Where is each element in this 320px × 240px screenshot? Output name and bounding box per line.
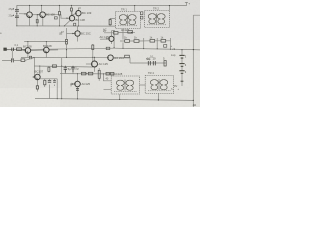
wire x34 drop [33,58,35,78]
wire y41 link [24,41,66,43]
transistor A prime [25,48,31,54]
wire T9 collector [39,73,41,75]
resistor hang x49 on y66 [48,66,50,72]
wire second input [2,58,34,61]
capacitor pair y63 a [148,61,150,65]
transistor T4 [69,16,74,21]
transistor T9 [35,74,41,80]
wire A prime emitter [27,53,29,57]
emitter resistor T9 [36,86,38,89]
resistor R x59 [58,12,60,16]
resistor on x66 bus [66,39,68,44]
transistor T10 [108,55,114,61]
wire box1b-box2b link [140,84,146,86]
wire vertical x123 [122,29,124,49]
capacitor x65 electrolytic [64,68,67,73]
resistor x165 vertical [164,61,166,67]
wire T2 emitter [42,18,44,26]
resistor x92.8 [92,45,94,50]
wire x48 drop [37,85,44,92]
resistor rail y74 b [88,72,93,75]
capacitor C1 electrolytic [13,5,19,13]
wire y63 segment [144,62,166,64]
wire T8 base [86,63,92,65]
transistor T8 [92,61,98,67]
capacitor bias3 [53,81,56,83]
arrow base T5 [72,33,74,34]
arrow into A prime base [23,49,25,51]
wire resistor x99 drop [98,68,100,81]
component near T4 emitter [74,23,76,26]
component below rail x127 [125,55,130,58]
wire vertical x170.5 [170,38,172,49]
wire T4 collector [71,11,73,16]
wire T9 emitter [36,80,38,86]
wire bottom ground rail [35,98,193,100]
wire upper ground rail [17,25,116,27]
arrow base T1 [25,13,27,14]
components layer [0,2,200,108]
wire T2 output right [46,15,70,19]
wiring layer [6,2,200,107]
emitter cap T7 [76,89,79,91]
wire T6 base [100,38,109,40]
capacitor pair y63 b [153,61,155,65]
resistor row r2 [134,40,139,43]
capacitor C input [12,48,14,51]
resistor row r1 [125,40,130,43]
wire B prime collector [45,42,47,48]
wire T6 collector [111,31,114,37]
wire resistor drop x59 [58,5,60,26]
wire cap drops y66 [65,66,73,74]
wire box1b bottom drop [119,94,121,99]
battery extra bar [181,80,184,82]
resistor rail y74 d [111,72,114,75]
scan grain overlay [0,0,200,107]
wire box2t top feed [168,6,170,11]
arrow base T6 [106,38,108,39]
capacitor C second input [12,58,14,62]
wire T3 collector [78,8,81,11]
wire B prime out [49,49,58,51]
resistor x99 vertical [98,70,100,78]
resistor node T1T2 [36,20,38,23]
wire resistor drop x71 [70,5,72,15]
wire input cap to T1 base [19,13,27,15]
junction dots [16,5,194,101]
capacitor bias2 [48,81,51,83]
wire rail y66 [34,66,93,67]
wire top supply rail [17,2,188,5]
resistor second input [21,59,25,62]
output transformer TR4 bottom dashed box [145,76,174,94]
resistor row r4 [161,40,166,43]
wire rail to right edge [193,49,200,51]
arrow base T2 [38,14,40,15]
wire resistor row y41 [120,40,171,42]
transistor T6 [109,36,114,41]
wire B prime emitter [45,53,47,58]
wire T5 base [67,33,75,35]
component T2 out below wire [54,17,57,19]
wire T2 collector [41,5,43,12]
paper background [0,0,200,107]
output transformer TR1 top dashed box [116,12,141,29]
wire x39.8 drop to T9 [39,66,41,74]
wire T8 emitter [94,67,96,72]
wire T6 region [110,18,115,26]
wire x61.7 bus [61,58,63,99]
wire A-B coupling mid [31,49,44,52]
resistor x104 vertical [109,20,111,25]
wire rail y32.8 [104,31,135,34]
arrow into T7 base [72,83,74,85]
resistor bias1 [44,80,46,85]
wire box1b feeds [104,74,112,89]
wire T10 out to caps row [113,58,144,63]
wire input cap-resistor [14,49,26,52]
transistor T2 [40,12,46,18]
wire input terminal lead [6,48,11,50]
wire T3 base [71,14,75,16]
wire bias drops [45,79,58,99]
paper tone band bottom-left [0,88,60,107]
resistor R x71 [70,8,72,11]
output transformer TR2 top dashed box [145,11,170,28]
wire vertical x157.2 [156,38,158,49]
transistor T3 [76,11,81,16]
wire T1-T2 coupling [32,14,40,16]
resistor row r3 [150,40,155,43]
wire vertical x143.7 [143,38,145,49]
wire T1 collector [29,5,31,12]
wire T1 emitter [29,18,31,26]
components between top boxes [141,12,143,15]
wire bus x66 [66,28,68,57]
paper tone band top [0,0,200,40]
wire T7 collector [77,74,79,81]
resistor rail y74 c [106,72,109,75]
mark on rail x108 [106,47,110,49]
resistor y32 b [128,31,133,33]
component below A prime [29,56,31,59]
wire mid rail right [114,48,193,49]
wire node T1T2 drop [36,15,38,26]
wire T5 collector [77,26,79,31]
wire mid rail left [6,48,114,50]
wire rail y74 [60,73,114,75]
battery B1 cells [179,55,184,73]
arrow base T4 [67,18,69,19]
wire T9 base lead [33,76,35,78]
transistor B prime [44,47,50,53]
capacitor C2 electrolytic [13,14,19,26]
wire T4 emitter diagonal [64,21,70,26]
resistor rail y74 a [81,72,86,75]
wire T8 collector [94,57,96,61]
wire caps vertical [16,5,18,26]
wire A prime collector [27,42,29,48]
transistor T5 [75,31,80,36]
input terminal J1 [4,48,7,50]
resistor y32.8 [114,32,119,35]
transistor T7 [75,81,81,87]
transistor T1 [27,12,33,18]
wire T6 emitter [111,31,114,48]
wire right bus [193,15,200,107]
wire box2b bottom drop [157,94,159,101]
wire input drop x12.3 [11,51,13,61]
resistor series on y66 wire [52,65,56,67]
wire T5 emitter [77,36,79,41]
wire battery top lead [181,50,183,86]
output transformer TR3 bottom dashed box [111,76,140,94]
arrow base T9 [33,76,35,77]
wire x92.8 bus [92,44,94,67]
wire box1t top feed [134,6,136,12]
wire bias rail y79 [40,78,57,80]
wire drop x76.7 region [70,84,72,87]
wire T7 base [70,83,75,85]
wire lower rail y57 [21,57,108,59]
wire T3 emitter down [77,16,79,26]
wire T7 emitter [77,87,79,99]
blob x165 above caps [164,45,167,48]
resistor R input [17,48,22,51]
capacitor x73 electrolytic [71,67,74,72]
